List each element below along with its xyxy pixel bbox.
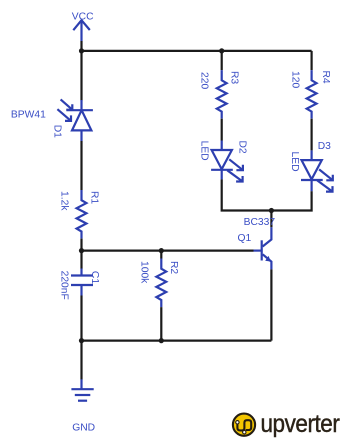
wire VCC vertical (VCC to D1 cathode) [80,41,82,101]
wire R3 top stub [221,51,223,70]
wire emitter to ground rail [270,269,272,340]
svg-text:D3: D3 [318,141,331,152]
junction base node at R2 [159,248,164,253]
LED D3 [301,150,333,191]
svg-text:R2: R2 [168,261,179,274]
junction ground node at R2 [159,338,164,343]
wire D3 to collector node [271,191,311,210]
svg-text:R1: R1 [89,191,100,204]
junction collector node [269,208,274,213]
svg-text:1.2k: 1.2k [59,191,70,211]
svg-text:D1: D1 [51,125,62,138]
junction VCC at R3 [219,48,224,53]
svg-text:C1: C1 [89,271,100,284]
wire D1 to R1 [80,141,82,190]
LED D2 [211,141,243,182]
svg-text:R3: R3 [228,71,239,84]
svg-text:120: 120 [290,71,301,88]
wire R3 to D2 [221,119,223,141]
svg-text:LED: LED [289,152,300,172]
svg-text:GND: GND [72,423,95,434]
junction VCC left [79,48,84,53]
wire VCC top rail horizontal [82,50,312,52]
wire collector stub [270,211,272,228]
wire D2 to collector node [222,179,272,210]
wire R2 top stub [160,251,162,259]
resistor R3 [217,70,227,119]
capacitor C1 [71,269,93,296]
resistor R2 [156,259,166,308]
wire ground node to GND [80,341,82,380]
logo upverter icon [233,414,255,436]
wire R1 to base node [80,239,82,251]
junction ground node left [79,338,84,343]
svg-text:BPW41: BPW41 [11,110,46,121]
wire base node horizontal [82,250,254,252]
wire R4 to D3 [311,119,313,151]
svg-text:R4: R4 [320,71,331,84]
photodiode D1 BPW41 [57,99,93,141]
ground symbol GND [71,379,93,400]
svg-text:220nF: 220nF [59,271,70,300]
wire R2 bottom stub [160,307,162,341]
svg-text:VCC: VCC [72,11,94,22]
svg-text:D2: D2 [237,141,248,154]
transistor Q1 BC337 [254,227,272,269]
wire base node down to C1 [80,251,82,269]
svg-text:100k: 100k [139,261,150,284]
resistor R4 [307,70,317,119]
resistor R1 [77,190,87,239]
wire ground node horizontal [82,340,272,342]
svg-text:BC337: BC337 [244,217,276,228]
svg-text:Q1: Q1 [238,233,252,244]
svg-text:upverter: upverter [261,410,340,438]
junction base node left [79,248,84,253]
wire C1 to ground node [80,296,82,341]
svg-text:220: 220 [199,72,210,89]
svg-text:LED: LED [198,141,209,161]
wire R4 top stub [311,51,313,70]
power symbol VCC [73,20,90,41]
